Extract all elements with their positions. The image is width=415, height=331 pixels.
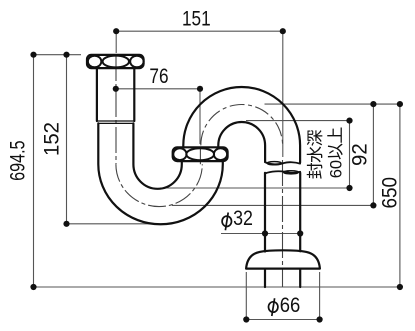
svg-text:60: 60 [327,160,345,178]
svg-text:66: 66 [280,294,301,317]
svg-text:32: 32 [233,207,253,231]
svg-text:152: 152 [40,122,63,156]
svg-text:650: 650 [379,177,402,209]
svg-text:76: 76 [149,66,168,89]
svg-text:694.5: 694.5 [6,140,30,180]
svg-text:151: 151 [182,8,211,31]
svg-text:92: 92 [348,143,371,166]
